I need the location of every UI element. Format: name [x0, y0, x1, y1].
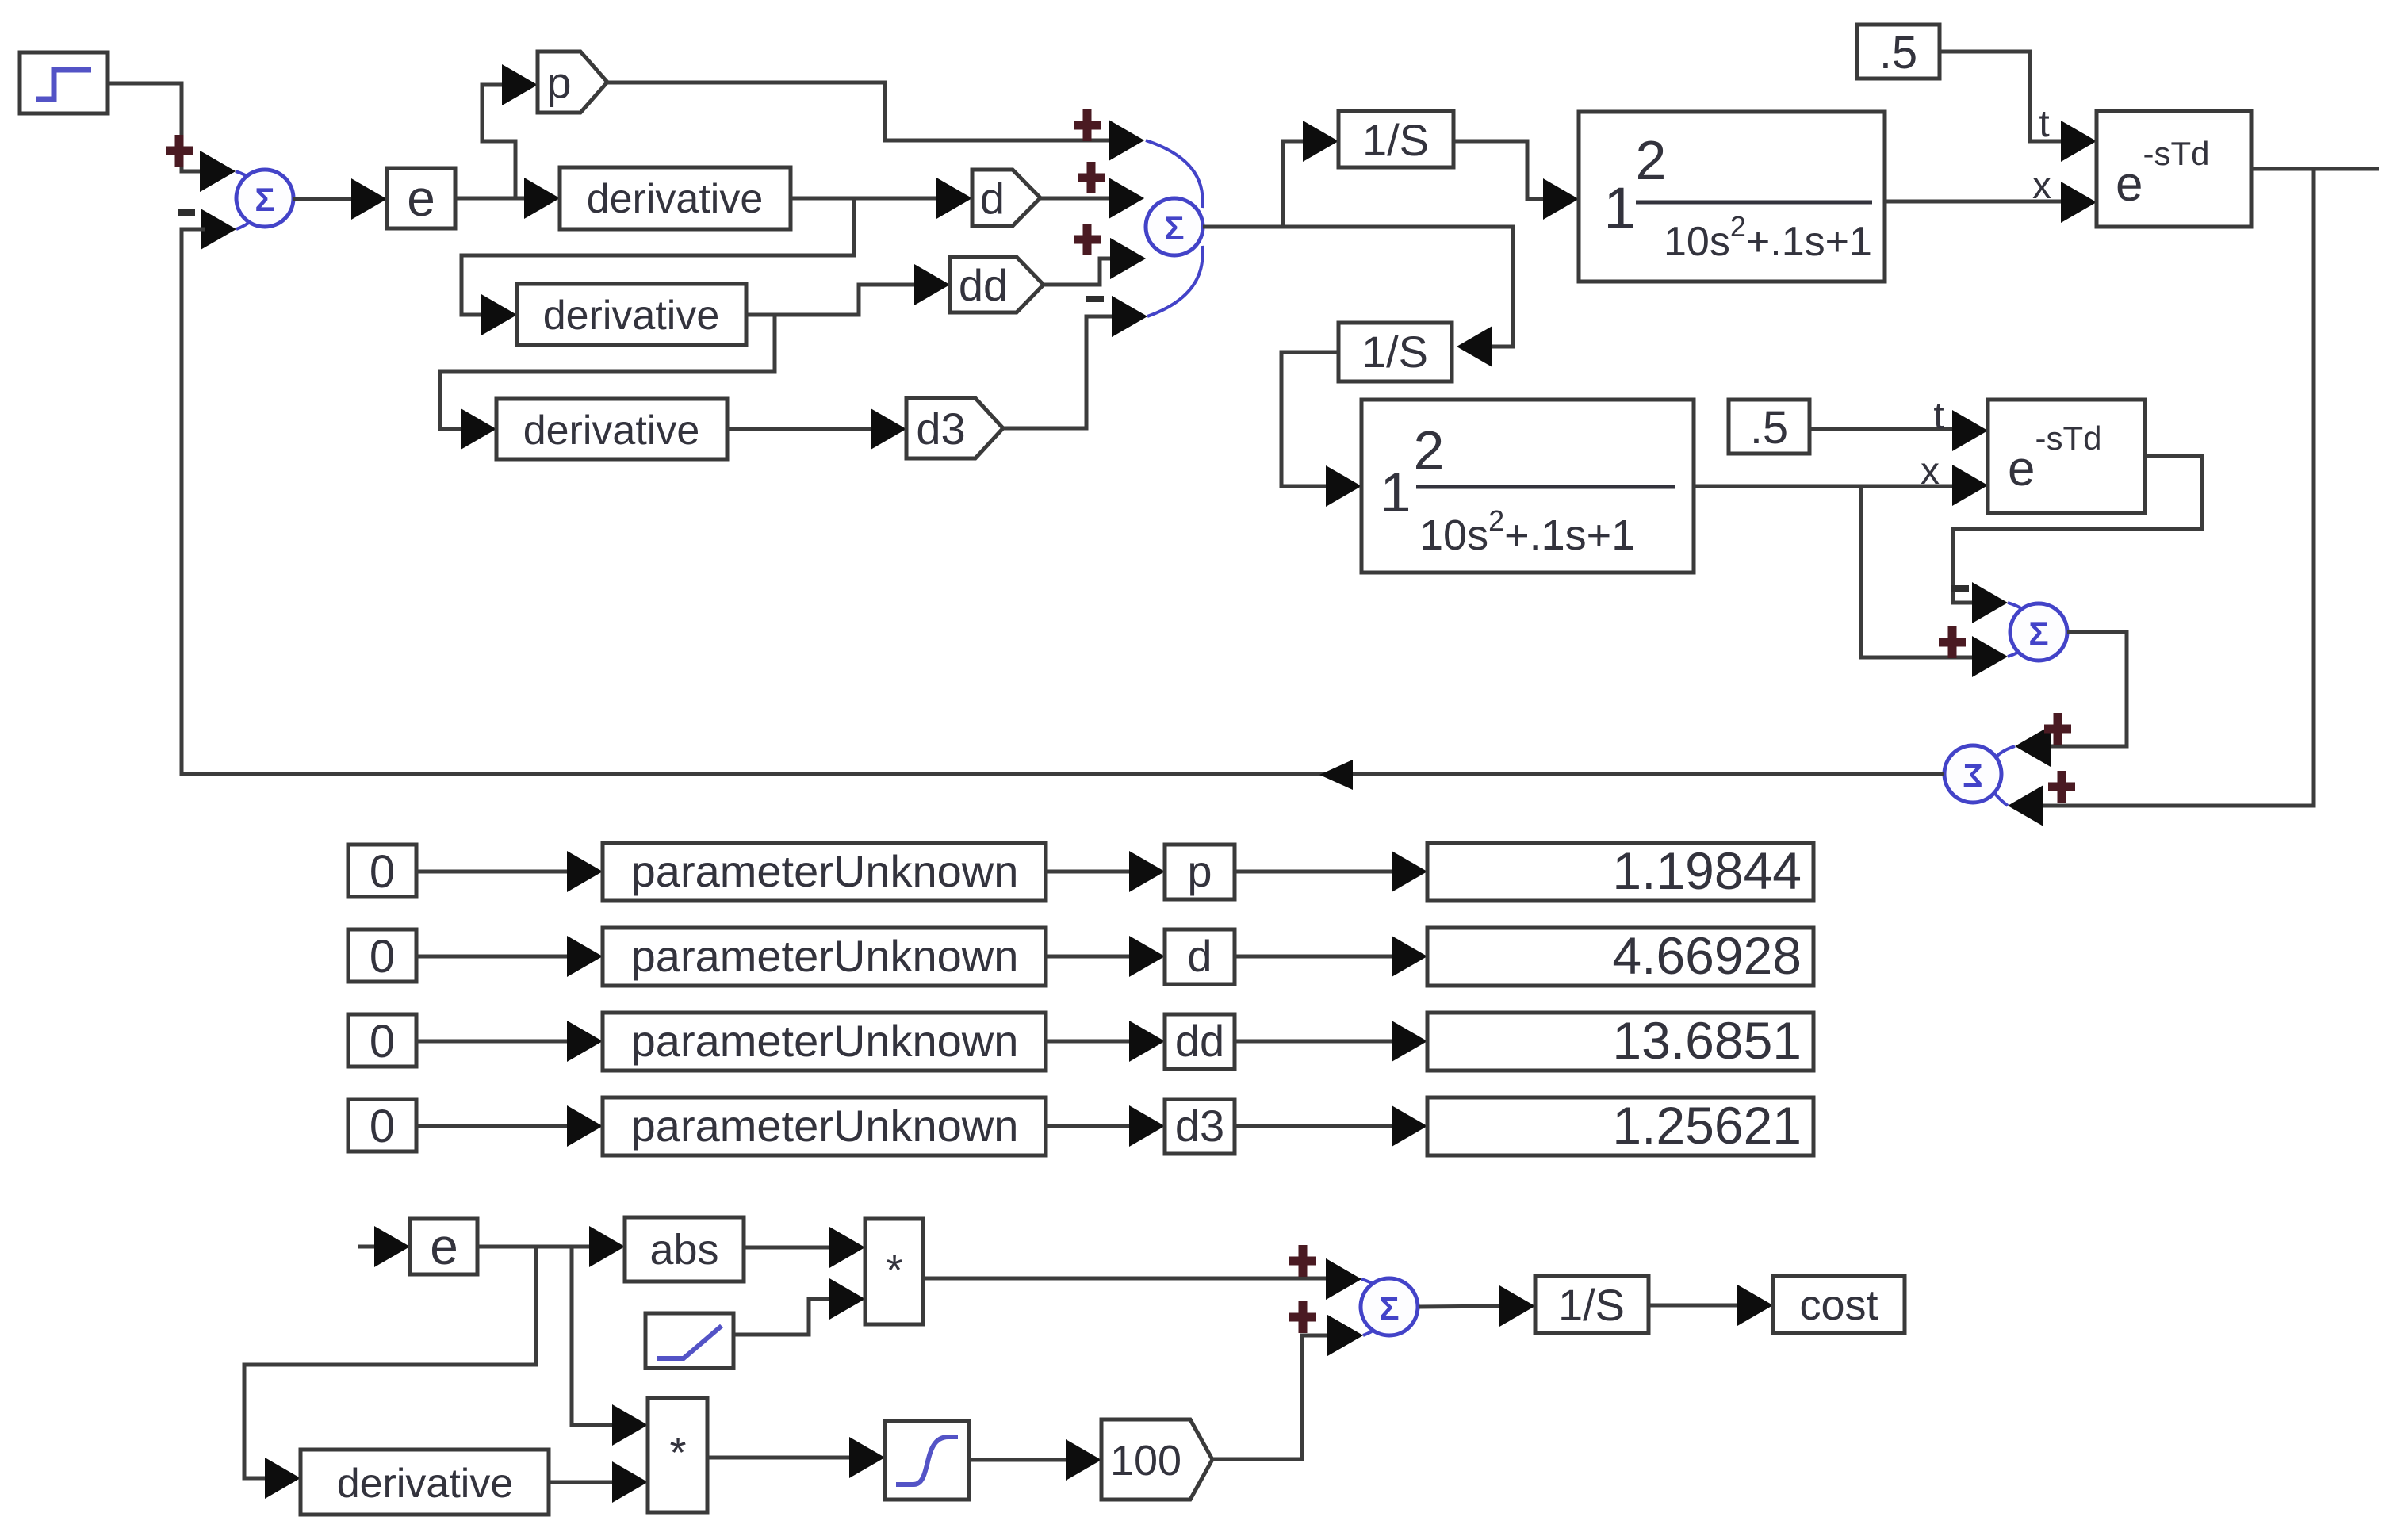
- wire parameterUnknown to dd: [1046, 1021, 1165, 1062]
- svg-text:dd: dd: [959, 260, 1008, 310]
- constant .5 first: [1857, 25, 1940, 79]
- wire transfer function 2 to delay2 x input and branch to sum3: [1694, 450, 2008, 677]
- svg-text:13.6851: 13.6851: [1612, 1011, 1802, 1070]
- parameter row dd: constant 0: [348, 1014, 416, 1067]
- wire sum5 to integrator3: [1419, 1285, 1535, 1327]
- svg-text:d3: d3: [916, 404, 965, 454]
- transfer function block 1: 2/(10s^2+.1s+1): [1579, 112, 1885, 282]
- wire sigmoid to 100: [969, 1439, 1101, 1481]
- svg-text:1: 1: [1381, 462, 1411, 523]
- parameter row d: constant 0: [348, 929, 416, 983]
- derivative block 4: [301, 1450, 549, 1515]
- wire 0 to parameterUnknown (dd row): [416, 1021, 603, 1062]
- wire delay1 output right and down feedback to sum4: [2008, 169, 2379, 826]
- wire parameterUnknown to d3: [1046, 1105, 1165, 1147]
- wire delay2 output loop to sum3 minus input: [1953, 456, 2202, 623]
- parameterUnknown block (d3 row): [603, 1098, 1046, 1155]
- variable box d (row): [1165, 929, 1235, 984]
- wire dd to sum2 input 3: [1044, 238, 1146, 285]
- summing junction sum3: [1939, 585, 2067, 661]
- svg-text:Σ: Σ: [2028, 615, 2048, 652]
- summing junction sum4 mirrored: [1944, 713, 2075, 806]
- display box value 1.25621: [1427, 1096, 1813, 1155]
- svg-text:*: *: [886, 1247, 902, 1294]
- ramp source block: [645, 1313, 733, 1368]
- svg-text:t: t: [2039, 103, 2049, 145]
- svg-text:d: d: [1187, 931, 1212, 981]
- wire 0 to parameterUnknown (p row): [416, 851, 603, 892]
- abs block: [625, 1217, 744, 1281]
- gain tag 100: [1101, 1419, 1212, 1500]
- wire derivative4 to multiplier2: [549, 1461, 648, 1503]
- svg-text:1/S: 1/S: [1558, 1280, 1625, 1330]
- wire parameterUnknown to d: [1046, 936, 1165, 977]
- svg-text:parameterUnknown: parameterUnknown: [631, 1016, 1019, 1066]
- variable box d3 (row): [1165, 1099, 1235, 1154]
- integrator 1/S second: [1338, 323, 1452, 381]
- variable tag dd: [950, 257, 1044, 312]
- svg-text:x: x: [2032, 165, 2051, 207]
- variable e: [387, 168, 455, 228]
- svg-text:p: p: [546, 58, 571, 108]
- svg-text:0: 0: [370, 931, 395, 983]
- svg-text:abs: abs: [649, 1226, 718, 1274]
- svg-text:parameterUnknown: parameterUnknown: [631, 1101, 1019, 1151]
- svg-text:derivative: derivative: [587, 176, 764, 222]
- svg-text:1/S: 1/S: [1361, 327, 1428, 377]
- wire multiplier1 to sum5: [923, 1258, 1361, 1300]
- wire 0 to parameterUnknown (d3 row): [416, 1105, 603, 1147]
- feedback wire sum4 output to sum1 minus input: [182, 229, 1944, 790]
- svg-text:1: 1: [1603, 175, 1636, 241]
- variable box dd (row): [1165, 1014, 1235, 1069]
- svg-text:.5: .5: [1750, 402, 1788, 454]
- wire derivative2 to dd and branch down to derivative3: [440, 264, 950, 450]
- parameterUnknown block (p row): [603, 843, 1046, 901]
- variable e bottom: [410, 1218, 477, 1275]
- svg-text:4.66928: 4.66928: [1612, 926, 1802, 985]
- parameter row d3: constant 0: [348, 1099, 416, 1152]
- wire sum3 output to sum4 top input: [2015, 632, 2127, 767]
- svg-text:10s2+.1s+1: 10s2+.1s+1: [1664, 210, 1872, 265]
- summing junction sum2: [1074, 109, 1203, 337]
- svg-text:1.25621: 1.25621: [1612, 1096, 1802, 1155]
- wire derivative3 to d3: [727, 408, 906, 450]
- svg-text:2: 2: [1636, 129, 1667, 191]
- parameterUnknown block (d row): [603, 928, 1046, 986]
- svg-text:*: *: [669, 1429, 686, 1477]
- wire 0 to parameterUnknown (d row): [416, 936, 603, 977]
- wire stub into e bottom: [358, 1226, 410, 1267]
- svg-text:.5: .5: [1879, 27, 1917, 79]
- svg-text:t: t: [1933, 395, 1944, 437]
- svg-text:0: 0: [370, 846, 395, 898]
- svg-text:d3: d3: [1175, 1101, 1224, 1151]
- svg-text:p: p: [1187, 846, 1212, 896]
- wire .5 second to delay2 t input: [1809, 395, 1988, 451]
- svg-text:Σ: Σ: [1379, 1289, 1399, 1327]
- svg-text:e: e: [407, 170, 435, 227]
- wire multiplier2 to sigmoid: [707, 1437, 885, 1478]
- time delay block 2: e^-sTd: [1988, 400, 2145, 513]
- wire d to sum2 input 2: [1040, 178, 1144, 219]
- svg-text:derivative: derivative: [523, 408, 700, 454]
- wire p to display value: [1235, 851, 1427, 892]
- time delay block 1: e^-sTd: [2097, 111, 2251, 227]
- variable cost: [1773, 1276, 1905, 1333]
- wire ramp to multiplier1: [733, 1278, 865, 1335]
- display box value 1.19844: [1427, 841, 1813, 901]
- svg-text:Σ: Σ: [1164, 209, 1184, 247]
- integrator 1/S first: [1338, 111, 1453, 167]
- wire step to sum1: [108, 83, 236, 192]
- multiplier block 2: [648, 1398, 707, 1512]
- svg-text:parameterUnknown: parameterUnknown: [631, 846, 1019, 896]
- transfer function block 2: 2/(10s^2+.1s+1): [1361, 400, 1694, 573]
- svg-text:100: 100: [1110, 1437, 1181, 1484]
- step input source: [20, 52, 108, 113]
- wire parameterUnknown to p: [1046, 851, 1165, 892]
- variable tag d: [972, 170, 1040, 226]
- svg-text:10s2+.1s+1: 10s2+.1s+1: [1419, 504, 1635, 559]
- wire integrator1 to transfer function 1: [1453, 141, 1579, 220]
- variable box p (row): [1165, 845, 1235, 899]
- wire .5 to delay1 t input: [1940, 52, 2097, 162]
- multiplier block 1: [865, 1219, 923, 1324]
- summing junction sum5: [1289, 1245, 1418, 1356]
- display box value 13.6851: [1427, 1011, 1813, 1071]
- constant .5 second: [1729, 400, 1809, 454]
- svg-text:cost: cost: [1799, 1281, 1878, 1329]
- sigmoid limit block: [885, 1421, 969, 1500]
- variable tag p: [538, 52, 607, 113]
- derivative block 1: [560, 167, 791, 229]
- svg-text:parameterUnknown: parameterUnknown: [631, 931, 1019, 981]
- wire d3 to sum2 input 4: [1003, 296, 1147, 428]
- wire abs to multiplier1: [744, 1227, 865, 1268]
- svg-text:x: x: [1921, 450, 1940, 492]
- wire integrator3 to cost: [1649, 1285, 1773, 1326]
- svg-text:2: 2: [1414, 419, 1445, 481]
- wire d to display value: [1235, 936, 1427, 977]
- parameterUnknown block (dd row): [603, 1013, 1046, 1071]
- svg-text:dd: dd: [1175, 1016, 1224, 1066]
- svg-text:1/S: 1/S: [1362, 115, 1429, 165]
- derivative block 2: [517, 284, 746, 345]
- svg-text:e: e: [430, 1218, 458, 1275]
- parameter row p: constant 0: [348, 845, 416, 898]
- summing junction sum1: [166, 135, 293, 250]
- wire 100 up to sum5 bottom input: [1212, 1315, 1363, 1459]
- variable tag d3: [906, 398, 1003, 458]
- wire sum1 to e: [293, 178, 387, 220]
- integrator 1/S third: [1535, 1276, 1649, 1333]
- svg-text:derivative: derivative: [337, 1461, 514, 1507]
- svg-text:0: 0: [370, 1016, 395, 1067]
- display box value 4.66928: [1427, 926, 1813, 986]
- derivative block 3: [496, 399, 727, 459]
- svg-text:1.19844: 1.19844: [1612, 841, 1802, 900]
- wire p to sum2 input 1: [607, 82, 1144, 161]
- wire derivative1 to d and branch down to derivative2: [461, 178, 972, 335]
- wire dd to display value: [1235, 1021, 1427, 1062]
- svg-text:0: 0: [370, 1101, 395, 1152]
- wire sum2 output to integrator1 and down to integrator2: [1203, 121, 1513, 367]
- wire integrator2 to transfer function 2: [1281, 352, 1361, 507]
- svg-text:Σ: Σ: [255, 181, 274, 218]
- svg-text:Σ: Σ: [1963, 757, 1982, 794]
- svg-text:derivative: derivative: [543, 293, 720, 339]
- wire e to abs with branches to multiplier2 and derivative4: [244, 1226, 648, 1499]
- wire e to derivative1 with branch up to p: [455, 64, 560, 219]
- wire d3 to display value: [1235, 1105, 1427, 1147]
- wire transfer function 1 to delay1 x input: [1885, 165, 2097, 223]
- svg-text:d: d: [980, 174, 1005, 224]
